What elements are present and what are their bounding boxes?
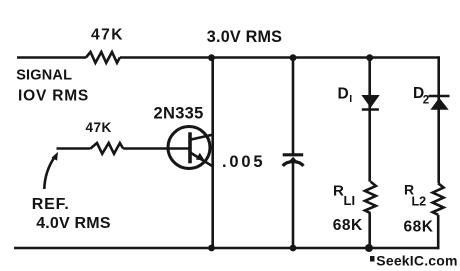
svg-text:I: I — [349, 93, 352, 105]
svg-text:SIGNAL: SIGNAL — [16, 67, 72, 83]
svg-text:68K: 68K — [404, 219, 434, 236]
svg-text:SeekIC.com: SeekIC.com — [376, 252, 457, 268]
svg-text:IOV RMS: IOV RMS — [18, 87, 89, 104]
svg-text:3.0V RMS: 3.0V RMS — [207, 28, 282, 46]
svg-text:L2: L2 — [412, 195, 427, 209]
svg-text:R: R — [333, 183, 344, 200]
svg-text:2N335: 2N335 — [154, 105, 204, 123]
svg-text:47K: 47K — [91, 26, 124, 43]
svg-text:.005: .005 — [222, 153, 265, 171]
svg-text:68K: 68K — [333, 217, 363, 234]
svg-text:4.0V RMS: 4.0V RMS — [36, 215, 111, 232]
svg-text:REF.: REF. — [32, 196, 70, 213]
svg-text:D: D — [338, 85, 349, 102]
svg-text:LI: LI — [344, 193, 356, 208]
svg-text:2: 2 — [423, 95, 429, 107]
svg-text:47K: 47K — [86, 120, 112, 135]
